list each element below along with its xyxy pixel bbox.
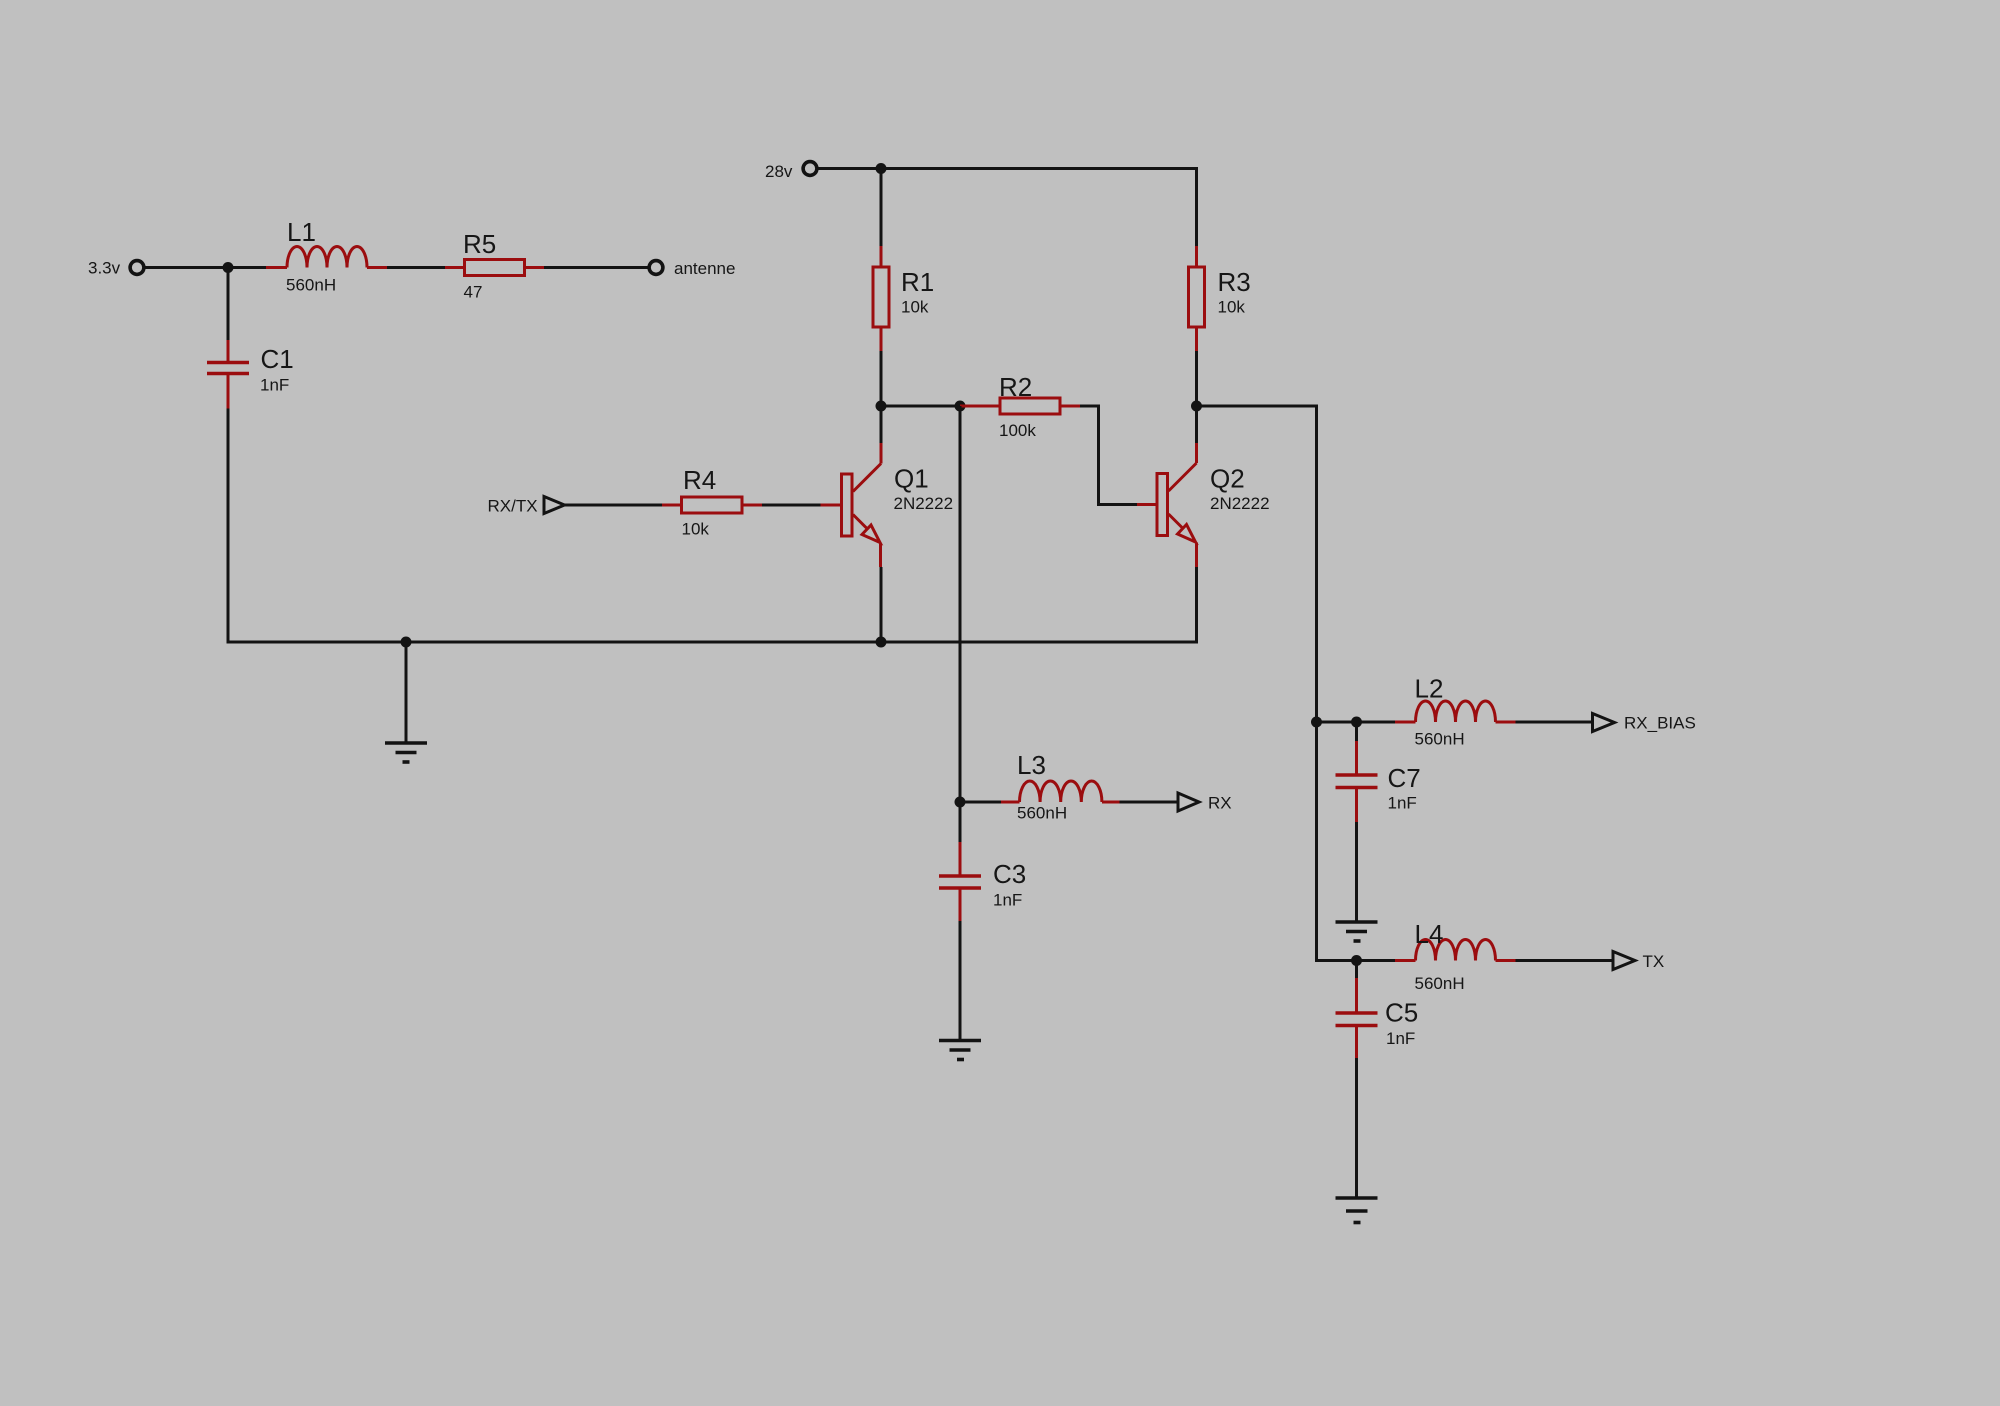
terminal RX_BIAS arrow (1593, 714, 1696, 733)
node G junction (1311, 717, 1322, 728)
node C junction (876, 401, 887, 412)
svg-text:L3: L3 (1017, 750, 1046, 780)
svg-text:C7: C7 (1388, 763, 1421, 793)
svg-text:TX: TX (1643, 952, 1665, 971)
ground GND1 (rail) (385, 642, 427, 762)
wire L3 to RX (1120, 801, 1179, 804)
wire RX/TX to R4 (565, 504, 663, 507)
svg-text:Q1: Q1 (894, 464, 929, 494)
svg-text:L4: L4 (1415, 919, 1444, 949)
svg-text:RX_BIAS: RX_BIAS (1624, 714, 1696, 733)
svg-text:C1: C1 (261, 344, 294, 374)
wire Q1 emitter to rail (880, 567, 883, 642)
terminal 28v (765, 162, 817, 181)
wire C3 to ground (959, 921, 962, 1039)
node H junction (1351, 717, 1362, 728)
capacitor C7 (1336, 722, 1421, 822)
svg-text:1nF: 1nF (993, 891, 1022, 910)
wire node E to right column (1197, 406, 1317, 722)
capacitor C1 (207, 340, 294, 409)
wire R1 to node C (880, 351, 883, 406)
svg-text:Q2: Q2 (1210, 464, 1245, 494)
terminal TX arrow (1613, 952, 1664, 972)
svg-text:560nH: 560nH (286, 276, 336, 295)
svg-text:R1: R1 (901, 267, 934, 297)
inductor L3 (1001, 750, 1120, 823)
svg-text:10k: 10k (1218, 298, 1246, 317)
svg-text:3.3v: 3.3v (88, 259, 121, 278)
transistor Q2 (1137, 443, 1270, 567)
wire node B down to R1 (880, 169, 883, 247)
svg-text:560nH: 560nH (1017, 804, 1067, 823)
wire node C to node D (881, 405, 960, 408)
wire 28v to node B (819, 167, 882, 170)
svg-text:10k: 10k (901, 298, 929, 317)
wire L4 to TX (1516, 959, 1614, 962)
wire node G to node H (1317, 721, 1396, 724)
svg-text:C5: C5 (1385, 998, 1418, 1028)
svg-text:C3: C3 (993, 859, 1026, 889)
node F junction (955, 797, 966, 808)
terminal antenne (649, 259, 735, 278)
resistor R4 (662, 465, 762, 539)
wire R3 to node E (1195, 351, 1198, 406)
inductor L1 (266, 217, 387, 295)
svg-text:47: 47 (464, 283, 483, 302)
wire right column down to L4 row (1317, 722, 1357, 961)
wire L2 to RX_BIAS (1516, 721, 1593, 724)
wire Q2 emitter to rail (1195, 567, 1198, 644)
wire L1 to R5 (387, 266, 445, 269)
svg-text:antenne: antenne (674, 259, 735, 278)
wire Q2 collector to node E (1195, 406, 1198, 443)
svg-text:L2: L2 (1415, 674, 1444, 704)
wire down to R3 (1195, 169, 1198, 247)
node A junction (223, 262, 234, 273)
wire C5 to ground (1355, 1058, 1358, 1197)
wire R4 to Q1 base (762, 504, 821, 507)
svg-text:10k: 10k (682, 520, 710, 539)
node D junction (955, 401, 966, 412)
wire C7 to ground (1355, 822, 1358, 921)
node B junction (876, 163, 887, 174)
wire R5 to antenne (544, 266, 648, 269)
wire 3.3v to node A (146, 266, 267, 269)
wire node A down to C1 (227, 268, 230, 341)
resistor R2 (960, 372, 1080, 440)
resistor R5 (445, 229, 544, 302)
svg-text:L1: L1 (287, 217, 316, 247)
svg-text:RX/TX: RX/TX (488, 497, 538, 516)
svg-text:R5: R5 (463, 229, 496, 259)
wire Q1 collector to node C (880, 406, 883, 443)
wire ground rail (227, 641, 1199, 644)
svg-text:28v: 28v (765, 162, 793, 181)
ground GND4 (C3) (939, 1041, 981, 1060)
wire R2 to Q2 base (1080, 406, 1137, 505)
svg-text:2N2222: 2N2222 (894, 494, 954, 513)
terminal RX arrow (1178, 793, 1232, 813)
ground GND3 (C5) (1336, 1198, 1378, 1223)
resistor R3 (1189, 246, 1251, 351)
svg-text:R2: R2 (999, 372, 1032, 402)
ground GND2 (C7) (1336, 922, 1378, 941)
svg-text:1nF: 1nF (1388, 794, 1417, 813)
capacitor C3 (939, 802, 1026, 921)
node E junction (1191, 401, 1202, 412)
svg-text:R3: R3 (1218, 267, 1251, 297)
wire C1 to ground rail (227, 409, 230, 644)
svg-text:560nH: 560nH (1415, 974, 1465, 993)
svg-text:2N2222: 2N2222 (1210, 494, 1270, 513)
wire node D down to node F (959, 406, 962, 802)
svg-text:560nH: 560nH (1415, 730, 1465, 749)
wire node I to L4 (1357, 959, 1396, 962)
svg-text:R4: R4 (683, 465, 716, 495)
svg-text:RX: RX (1208, 794, 1232, 813)
terminal 3.3v (88, 259, 144, 278)
resistor R1 (873, 246, 934, 351)
capacitor C5 (1336, 961, 1419, 1059)
node Q1 emitter junction (876, 637, 887, 648)
transistor Q1 (821, 443, 954, 567)
node rail-ground junction (401, 637, 412, 648)
svg-text:1nF: 1nF (1386, 1029, 1415, 1048)
svg-text:1nF: 1nF (260, 376, 289, 395)
terminal RX/TX input arrow (488, 497, 565, 516)
inductor L4 (1395, 919, 1516, 993)
node I junction (1351, 955, 1362, 966)
wire top rail to R3 column (881, 167, 1198, 170)
inductor L2 (1395, 674, 1516, 749)
svg-text:100k: 100k (999, 421, 1036, 440)
wire node F to L3 (960, 801, 1001, 804)
